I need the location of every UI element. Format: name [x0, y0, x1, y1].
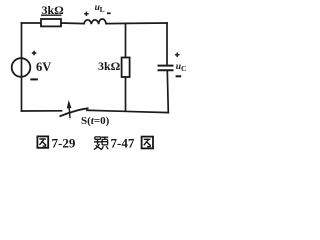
- wire: middle branch upper: [125, 24, 127, 58]
- wire: right vertical above capacitor: [166, 23, 168, 65]
- switch actuation arrow shaft: [68, 107, 71, 118]
- svg-text:L: L: [100, 5, 105, 14]
- svg-text:C: C: [181, 64, 186, 73]
- svg-text:6V: 6V: [36, 60, 51, 74]
- svg-text:S(t=0): S(t=0): [81, 115, 110, 127]
- wire: bottom segment right of switch: [87, 110, 168, 112]
- wire: middle branch lower: [125, 77, 127, 111]
- caption character 图 (first): [37, 136, 48, 147]
- capacitor C (two plates): [158, 66, 174, 71]
- wire: right vertical below capacitor: [167, 71, 168, 113]
- inductor L (3 humps): [84, 19, 106, 24]
- wire: left vertical (source branch): [21, 23, 23, 111]
- capacitor minus sign: [176, 75, 182, 77]
- capacitor plus sign: [175, 53, 180, 57]
- voltage source minus sign: [30, 78, 38, 80]
- caption character 图 (second): [142, 137, 153, 149]
- wire: bottom segment left of switch: [22, 110, 62, 112]
- wire: top segment R1 to L: [61, 22, 84, 25]
- underline under 3kΩ label: [41, 14, 62, 16]
- inductor minus sign: [107, 12, 111, 14]
- voltage source 6V (circle symbol): [12, 58, 31, 77]
- wire: top segment corner to R1: [22, 22, 42, 24]
- switch arrow head: [67, 100, 72, 108]
- switch S blade: [60, 108, 89, 116]
- svg-text:7-47: 7-47: [111, 136, 135, 151]
- svg-text:3kΩ: 3kΩ: [98, 59, 121, 73]
- inductor plus sign: [84, 12, 89, 16]
- resistor 3kΩ (top, series): [41, 19, 61, 26]
- wire: top segment L to right corner: [106, 22, 167, 25]
- voltage source plus sign: [32, 51, 37, 55]
- resistor 3kΩ (middle, vertical): [122, 58, 130, 78]
- svg-text:7-29: 7-29: [52, 136, 76, 151]
- caption character 题: [94, 137, 108, 150]
